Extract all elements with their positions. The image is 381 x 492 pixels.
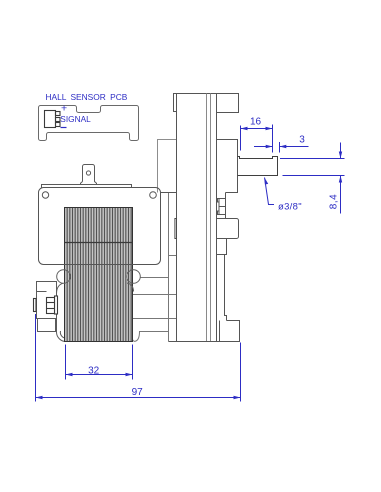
svg-text:8,4: 8,4 — [329, 194, 340, 209]
hall sensor pcb outline — [39, 106, 139, 141]
dimension 32 — [66, 345, 133, 380]
svg-text:97: 97 — [132, 387, 144, 398]
bottom edge — [169, 341, 240, 343]
motor through-bolt right — [127, 270, 141, 292]
lamination stack — [65, 208, 133, 342]
motor end bell left outline — [57, 283, 67, 341]
svg-text:HALL SENSOR PCB: HALL SENSOR PCB — [46, 92, 128, 102]
shaft hub — [217, 140, 238, 193]
motor through-bolt left — [57, 270, 71, 284]
left slot flange — [175, 219, 177, 239]
left bearing stud assembly — [37, 282, 57, 332]
spade terminal tab — [42, 165, 132, 188]
screw detail right side — [225, 193, 227, 219]
svg-text:3: 3 — [299, 135, 305, 146]
bracket lines right of motor — [133, 193, 177, 342]
screw hole right — [150, 192, 157, 199]
rib upper block — [217, 239, 227, 255]
svg-text:ø3/8": ø3/8" — [278, 202, 302, 213]
housing to gearbox line — [161, 192, 177, 194]
svg-text:SIGNAL: SIGNAL — [60, 114, 91, 124]
hex nut — [47, 296, 58, 314]
dimension 16 — [241, 125, 273, 153]
top plate — [42, 185, 132, 188]
mid block — [217, 219, 239, 239]
svg-text:32: 32 — [88, 366, 100, 377]
label diameter 3/8 — [265, 178, 275, 205]
bottom right foot — [220, 321, 240, 342]
gearbox plate column — [169, 94, 240, 342]
output shaft — [238, 157, 278, 176]
label minus — [61, 127, 67, 129]
pcb connector J1 — [45, 111, 61, 128]
screw hole left — [42, 192, 48, 198]
rib — [225, 255, 227, 321]
gearbox rear plate (hidden edge) — [158, 140, 177, 193]
dimension 8.4 — [280, 143, 345, 214]
svg-text:16: 16 — [250, 117, 262, 128]
motor housing cover — [39, 188, 177, 265]
svg-text:+: + — [61, 103, 67, 115]
dimension 97 — [36, 314, 241, 402]
stud left tab — [34, 299, 37, 312]
dimension 3 — [254, 142, 309, 153]
tab hole — [86, 171, 90, 175]
